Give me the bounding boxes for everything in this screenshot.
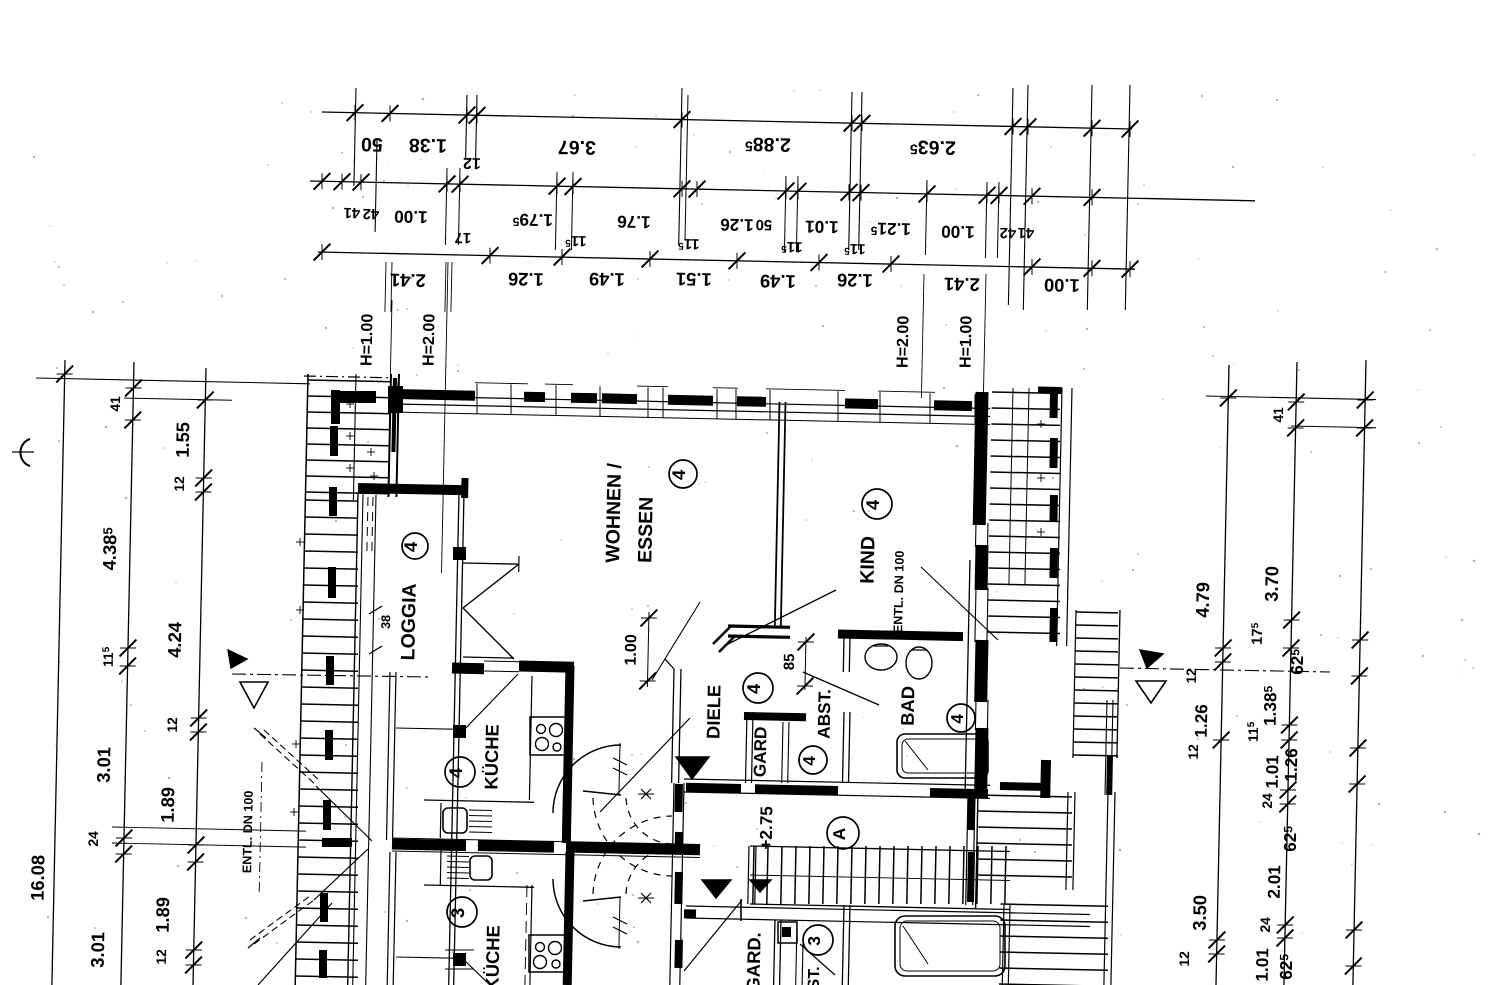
wall poche blobs in balcony strip [331, 390, 340, 424]
circle 3 kueche2 [447, 897, 477, 927]
right balcony top dash [1038, 387, 1062, 395]
stair arrow triangle 1 [676, 757, 709, 779]
svg-text:3.01: 3.01 [87, 932, 109, 968]
ticks on L1 [56, 366, 73, 383]
dimension line T2 (middle chain) [310, 181, 1255, 201]
svg-text:ST.: ST. [805, 966, 823, 985]
right balcony hatch rungs [992, 392, 1060, 393]
svg-text:42: 42 [362, 205, 379, 221]
svg-text:1.00: 1.00 [1044, 275, 1080, 297]
main stair top edge [750, 846, 1010, 852]
door leaf at wohnen entry [652, 602, 700, 680]
top wall poche lintel blobs [402, 394, 475, 396]
balcony floor edge line flat4 [396, 728, 453, 729]
sink drainer grate flat4 [469, 809, 492, 812]
svg-text:1.00: 1.00 [394, 207, 428, 228]
right exterior wall poche chunks [979, 392, 982, 525]
glazing post flat3 with ticks [453, 953, 466, 966]
party wall thin faces [392, 838, 700, 845]
svg-text:1.49: 1.49 [589, 269, 625, 291]
38 dim ticks [369, 606, 382, 614]
kueche east wall thick [566, 666, 570, 843]
svg-text:4.79: 4.79 [1192, 582, 1214, 618]
leader lines for H labels [390, 300, 392, 374]
svg-text:4.24: 4.24 [164, 621, 186, 658]
right dimension line R2 [1284, 362, 1297, 985]
left dimension line L1 [52, 360, 65, 985]
ticks on R1 [1220, 390, 1237, 407]
kueche counter side edge flat4 [529, 676, 532, 800]
lower right stair inner edge [1066, 792, 1068, 890]
svg-text:1.49: 1.49 [760, 271, 796, 293]
right balcony cross ticks [1037, 423, 1045, 425]
svg-text:BAD: BAD [897, 686, 919, 726]
svg-text:12: 12 [1177, 951, 1192, 967]
GARD2 left wall [774, 920, 775, 985]
kueche counter line flat4 [424, 800, 534, 802]
svg-text:1.55: 1.55 [172, 422, 194, 458]
right block top connectors [1206, 396, 1376, 400]
right balcony inner verticals [1009, 388, 1013, 585]
drain diagonal on balcony [316, 786, 372, 841]
upper strip divider vertical [353, 374, 356, 500]
svg-text:1.26: 1.26 [508, 269, 544, 291]
wall between wohnen and kind [775, 402, 780, 628]
svg-text:4: 4 [400, 541, 421, 552]
ticks on L2 [125, 380, 142, 397]
stove flat3 [529, 935, 567, 972]
flat4 south corridor wall faces [684, 779, 990, 785]
vertical grid connectors in top block [354, 88, 356, 186]
svg-text:KÜCHE: KÜCHE [480, 724, 502, 790]
kueche counter side edge flat3 [530, 885, 532, 985]
stairhall east wall double with chunks [966, 795, 968, 905]
svg-text:12: 12 [172, 476, 187, 492]
entry wall top jog [665, 659, 674, 669]
svg-text:4: 4 [445, 767, 466, 778]
top exterior wall second face line [396, 404, 990, 417]
door swing arc solid flat3 [553, 879, 621, 947]
svg-text:4: 4 [862, 499, 883, 510]
svg-text:2.01: 2.01 [1264, 865, 1285, 899]
north arc symbol at far left [20, 439, 30, 466]
kind door leaf diagonal [724, 590, 836, 646]
kueche top wall with corner [452, 663, 484, 675]
small cross ticks in strip [346, 403, 354, 405]
door leaf flat3 [583, 897, 621, 901]
door swing arc solid flat4 [553, 745, 621, 813]
bad circle 4 [947, 704, 975, 732]
ticks on T3 [314, 244, 331, 261]
svg-text:A: A [829, 827, 849, 840]
svg-text:50: 50 [361, 133, 383, 155]
sink drainer grate flat3 [447, 855, 469, 858]
loggia floor slab [358, 488, 467, 490]
loggia wall / top wall black junction [388, 386, 403, 413]
door stop cross flat3 [641, 893, 651, 903]
svg-text:KIND: KIND [857, 536, 880, 584]
sink counter left edge flat4 [439, 803, 442, 838]
svg-text:41: 41 [108, 396, 123, 412]
svg-text:3: 3 [447, 908, 468, 919]
kueche2 east wall thick [567, 852, 570, 985]
door swing arc dashed flat4 outer [593, 798, 672, 876]
svg-text:3.01: 3.01 [93, 747, 115, 783]
kueche top wall window thin lines [484, 660, 519, 663]
sink bowl flat3 [470, 856, 492, 880]
svg-text:1.26: 1.26 [720, 215, 754, 236]
svg-text:H=2.00: H=2.00 [893, 315, 912, 368]
85 dimension line [805, 637, 806, 690]
shaft box with dark square [778, 922, 797, 943]
svg-text:ESSEN: ESSEN [634, 497, 657, 564]
bad door leaf diagonal [803, 672, 879, 705]
lower right stair treads upper part [978, 795, 1072, 797]
svg-text:38: 38 [379, 615, 393, 629]
svg-text:1.01: 1.01 [1262, 755, 1283, 789]
section marker left: open triangle [240, 682, 268, 708]
svg-text:12: 12 [1184, 668, 1199, 684]
balcony strip hatch rungs lower [305, 500, 358, 501]
svg-text:1.26: 1.26 [1191, 704, 1212, 738]
svg-text:DIELE: DIELE [702, 685, 724, 740]
svg-text:1.89: 1.89 [157, 787, 179, 823]
section marker right: filled triangle [1140, 650, 1163, 668]
svg-text:1.26: 1.26 [1281, 748, 1302, 782]
entl leader dash-dot line [259, 762, 262, 893]
upper right stair edges [1073, 610, 1076, 758]
entry wall vertical double [672, 669, 674, 783]
main stair treads (horizontal run) [753, 846, 754, 904]
svg-text:ENTL. DN 100: ENTL. DN 100 [240, 790, 256, 873]
door width dim line flat4 [619, 743, 620, 795]
main stair walking line [750, 875, 1010, 881]
GARD closet left wall [746, 712, 748, 783]
main stair bottom edge [750, 904, 1010, 910]
door swing arc dashed flat3 inner [626, 848, 672, 894]
drain pipe diagonal upper (dashed double) [260, 734, 316, 785]
svg-text:24: 24 [86, 831, 101, 847]
abst circle 4 [799, 746, 827, 774]
svg-text:1.38: 1.38 [409, 134, 448, 157]
ticks on L3 [197, 392, 214, 409]
svg-text:3.70: 3.70 [1261, 566, 1283, 602]
svg-text:24: 24 [1260, 793, 1275, 809]
left dimension line L2 [121, 362, 134, 985]
1.00 door dimension line [647, 612, 649, 687]
washbasin 2 [906, 647, 932, 679]
section marker right: cut line [1120, 668, 1330, 672]
kueche circle 4 [445, 757, 475, 787]
svg-text:2.41: 2.41 [390, 270, 426, 292]
lower stair left edge double [1002, 905, 1004, 985]
svg-text:WOHNEN /: WOHNEN / [602, 462, 626, 563]
dimension line T3 (bottom chain) [318, 252, 1135, 269]
svg-text:24: 24 [1258, 917, 1273, 933]
ticks on T2 [314, 173, 331, 190]
svg-text:H=1.00: H=1.00 [357, 313, 376, 366]
balcony strip lower right edge double [348, 494, 358, 985]
svg-text:4: 4 [743, 683, 764, 694]
lower right stair west edge [976, 792, 978, 908]
loggia west face line below slab [366, 495, 376, 985]
washbasin 1 [865, 644, 897, 670]
stove flat4 [530, 717, 568, 755]
svg-text:12: 12 [154, 949, 169, 965]
svg-text:4: 4 [668, 469, 689, 480]
bathtub flat3 [895, 916, 1005, 976]
svg-text:3.50: 3.50 [1189, 895, 1211, 931]
svg-text:41: 41 [1271, 407, 1286, 423]
bad west wall [842, 637, 845, 672]
svg-text:4: 4 [947, 713, 967, 723]
ENTL leader diagonal [921, 567, 998, 640]
balcony floor edge line flat3 [396, 957, 453, 958]
party wall extension lines to left chains [112, 827, 306, 831]
sink bowl flat4 [443, 808, 467, 833]
svg-text:1.89: 1.89 [152, 897, 174, 933]
flat3 north corridor wall poche chunks [684, 909, 696, 918]
svg-text:GARD: GARD [749, 726, 770, 777]
kueche2 west wall double [387, 852, 390, 985]
svg-text:16.08: 16.08 [27, 855, 49, 901]
GARD ABST divider wall [782, 722, 783, 783]
entry door leaf flat4 [600, 718, 690, 812]
stairhall west wall double line [670, 783, 674, 985]
svg-text:ABST.: ABST. [813, 689, 834, 739]
left block top connector lines [36, 378, 310, 384]
bad2 west wall [842, 905, 844, 985]
ticks on R2 [1288, 394, 1305, 411]
right balcony poche dashes [1050, 392, 1059, 418]
loggia slab end cap [461, 478, 468, 498]
balcony door leaf flat3 [461, 957, 490, 985]
diele circle 4 (speckled) [743, 673, 773, 703]
svg-text:KÜCHE: KÜCHE [481, 925, 503, 985]
door swing arc dashed flat4 inner [626, 798, 672, 844]
drain pipe diagonal lower (dashed double) [254, 900, 314, 944]
left dimension line L3 [193, 368, 206, 985]
folding door zigzag flat4 [463, 563, 519, 564]
svg-text:1.26: 1.26 [837, 270, 873, 292]
glazing posts [453, 547, 466, 560]
right wall inner line [965, 560, 970, 792]
loggia room circle 4 [402, 533, 428, 559]
svg-text:1.00: 1.00 [941, 222, 975, 243]
svg-text:12: 12 [165, 717, 180, 733]
flat4 south corridor wall poche dashes [686, 787, 741, 788]
svg-text:1.01: 1.01 [805, 217, 839, 238]
svg-text:1.76: 1.76 [617, 212, 651, 233]
door swing arc dashed flat3 outer [593, 816, 672, 894]
door stop cross flat4 [641, 789, 651, 799]
top exterior wall inner face line [396, 396, 990, 409]
svg-text:+2.75: +2.75 [756, 805, 777, 849]
balcony strip hatch rungs upper [308, 380, 390, 382]
right dimension line R3 [1353, 360, 1366, 985]
svg-text:42: 42 [999, 224, 1016, 240]
right dimension line R1 [1216, 365, 1229, 985]
balcony strip top edge dash-dot [304, 376, 392, 378]
landing walls thick right of stair [1040, 760, 1051, 798]
svg-text:H=2.00: H=2.00 [419, 313, 438, 366]
entry door leaf flat3 [684, 900, 742, 971]
svg-text:2.41: 2.41 [944, 274, 980, 296]
svg-text:3.67: 3.67 [558, 136, 596, 159]
right exterior wall thin faces in gaps [975, 523, 978, 547]
svg-text:12: 12 [463, 154, 481, 172]
window sill line below top wall [390, 412, 990, 425]
svg-text:1.51: 1.51 [676, 269, 712, 291]
ticks on T1 [347, 104, 364, 121]
wohnen south wall (to diele) [728, 626, 790, 627]
ticks on R3 [1357, 392, 1374, 409]
upper right stair treads [1076, 611, 1118, 614]
window mullion ticks on top wall [397, 382, 399, 412]
lower right stair east edges [1104, 792, 1108, 985]
stair arrow triangle 2 [702, 880, 731, 898]
svg-text:17: 17 [454, 229, 471, 245]
svg-text:GARD.: GARD. [742, 932, 764, 985]
stairhall west wall poche chunks [674, 784, 683, 812]
ST2 door leaf diagonal [800, 944, 835, 975]
kueche corner line flat3 dashed [525, 885, 527, 985]
party wall between flats (poche band) [392, 844, 466, 846]
svg-text:4: 4 [799, 755, 819, 765]
dimension line T1 (top chain) [322, 112, 1132, 129]
svg-text:50: 50 [755, 216, 772, 232]
right stair mid wall double [1105, 700, 1107, 795]
balcony strip left edge line [295, 374, 308, 985]
wohnen south wall chamfer [713, 627, 730, 644]
GARD closet top wall [744, 716, 806, 717]
lower right stair treads lower part [1001, 904, 1108, 906]
door width dim line flat3 [619, 897, 620, 949]
section circle A [827, 817, 859, 849]
door leaf flat4 [583, 791, 621, 795]
svg-text:41: 41 [1017, 224, 1034, 240]
flat3 north corridor wall faces [686, 906, 1090, 915]
section marker right: open triangle [1136, 681, 1166, 703]
balcony strip upper right edge / loggia west wall (double) [388, 374, 391, 497]
svg-text:12: 12 [1186, 744, 1201, 760]
svg-text:3: 3 [804, 936, 824, 946]
sink counter left edge flat3 [439, 850, 442, 885]
circle 3 lower flat [803, 925, 833, 955]
right balcony right edge double [1057, 388, 1062, 646]
kind room circle 4 [862, 489, 892, 519]
strip top-left corner blob [332, 391, 376, 403]
section marker left: cut line [232, 674, 430, 677]
main stair left edge double [748, 846, 749, 904]
svg-text:H=1.00: H=1.00 [956, 315, 975, 368]
scan speckle noise [953, 111, 954, 112]
svg-text:ENTL. DN 100: ENTL. DN 100 [891, 550, 907, 633]
svg-text:1.01: 1.01 [1252, 948, 1273, 982]
loggia glazing front double line [449, 493, 459, 985]
drain diagonal lower balcony [258, 903, 332, 985]
svg-text:LOGGIA: LOGGIA [397, 583, 421, 660]
wohnen room circle 4 [669, 460, 697, 488]
hidden wall dashed continuation below loggia [367, 497, 368, 556]
balcony door leaf flat4 [461, 674, 518, 733]
GARD2 divider wall [796, 922, 797, 985]
kueche counter line flat3 [424, 885, 534, 887]
bathtub flat4 [897, 734, 988, 778]
kueche west wall double [387, 672, 391, 840]
svg-text:41: 41 [343, 204, 360, 220]
kind south wall / bad north wall [838, 634, 963, 637]
stair arrow triangle 3 [750, 880, 771, 892]
top exterior wall outer face segments above windows [475, 383, 528, 384]
section marker left: small filled triangle [228, 650, 247, 668]
svg-text:85: 85 [782, 653, 798, 670]
